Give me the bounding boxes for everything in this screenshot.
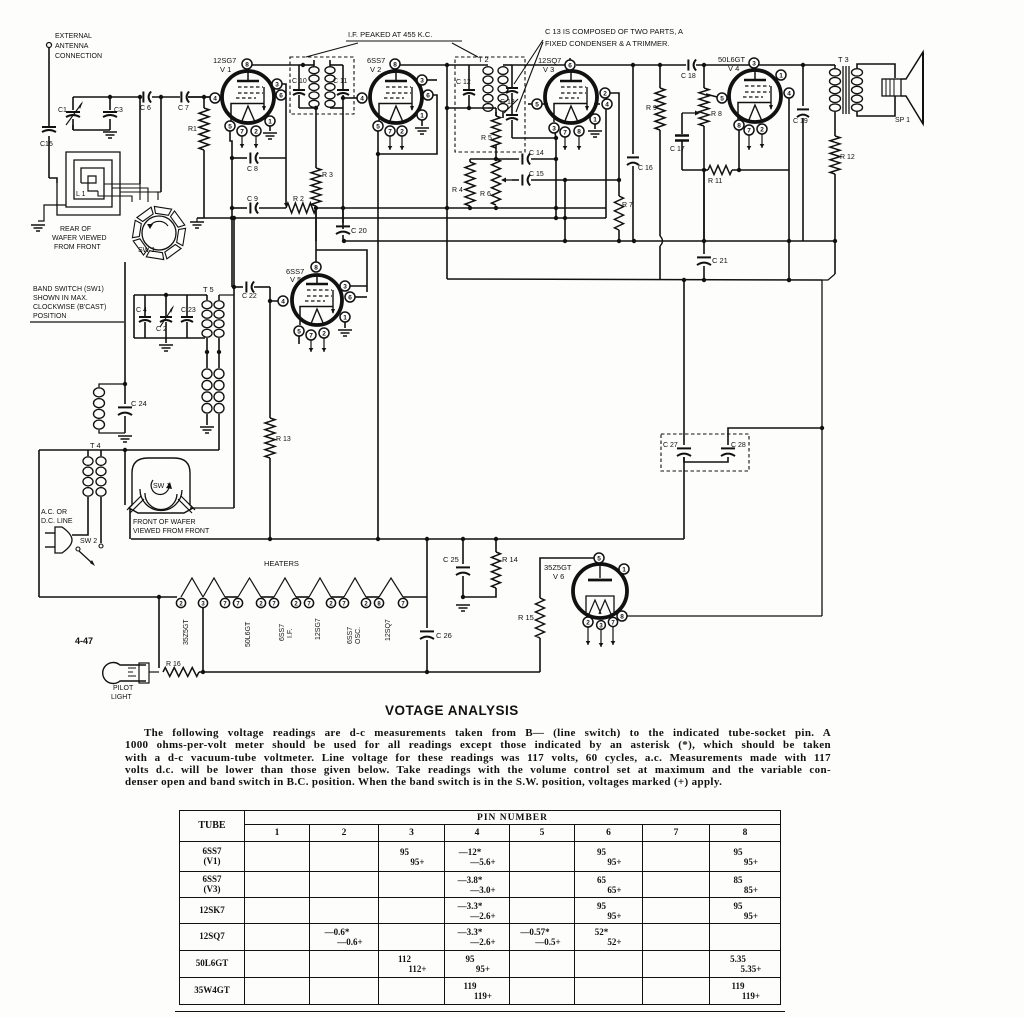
- wire pilot light column: [158, 597, 160, 668]
- svg-text:C 7: C 7: [178, 105, 189, 112]
- speaker SP1 voice coil: [882, 79, 901, 96]
- svg-text:6: 6: [348, 294, 352, 301]
- arrow V1 pin 7 lead: [241, 136, 243, 148]
- tube V1 pin 6: [276, 90, 286, 100]
- T1 secondary winding: [325, 67, 335, 74]
- wire C1-C3 bottom link: [72, 125, 74, 130]
- wire C6 left column down to L1 area: [139, 97, 141, 184]
- svg-text:D.C. LINE: D.C. LINE: [41, 518, 73, 525]
- wire plug left prong to heater line: [38, 450, 40, 597]
- svg-text:SP 1: SP 1: [895, 117, 910, 124]
- arrow V2 pin 2 lead: [401, 136, 403, 150]
- svg-text:7: 7: [240, 128, 244, 135]
- svg-text:HEATERS: HEATERS: [264, 559, 299, 568]
- wire T4 right winding down to SW2: [100, 497, 102, 543]
- table bottom rule: [175, 1011, 785, 1012]
- tube V4 pin 1: [776, 70, 786, 80]
- tube V5 pin 7: [306, 330, 316, 340]
- svg-text:4: 4: [787, 90, 791, 97]
- tube V6 pin 8: [617, 611, 627, 621]
- wire V1 pin5 column down: [230, 131, 232, 287]
- svg-text:FROM FRONT: FROM FRONT: [54, 244, 101, 251]
- svg-text:R 14: R 14: [502, 555, 518, 564]
- svg-text:CLOCKWISE (B'CAST): CLOCKWISE (B'CAST): [33, 304, 106, 311]
- svg-text:OSC.: OSC.: [355, 627, 362, 644]
- heater pin 7: [220, 598, 229, 607]
- heater pin 7 of 6SS7 IF: [269, 598, 278, 607]
- ground at V5 pin 1: [344, 322, 346, 328]
- wire R16 to C26 bus: [199, 671, 540, 673]
- heater pin 7 of 50L6GT: [233, 598, 242, 607]
- svg-text:T 4: T 4: [90, 441, 101, 450]
- wire V4 pin8 down: [738, 130, 740, 170]
- svg-text:C 16: C 16: [638, 165, 653, 172]
- tube V3 pin 4: [602, 99, 612, 109]
- svg-text:2: 2: [322, 330, 326, 337]
- capacitor C21: [703, 241, 705, 254]
- capacitor C22: [245, 282, 247, 293]
- capacitor C8: [232, 157, 247, 159]
- title VOTAGE ANALYSIS: [385, 703, 645, 718]
- svg-text:C 21: C 21: [712, 256, 728, 265]
- capacitor C26: [426, 539, 428, 628]
- tube V1 pin 3: [272, 79, 282, 89]
- wire V6 pin5 to R15: [540, 558, 594, 598]
- svg-text:3: 3: [752, 60, 756, 67]
- wire bus y280: [447, 279, 822, 280]
- wire V5 pin8 feedback loop: [315, 208, 317, 262]
- svg-text:C 18: C 18: [681, 73, 696, 80]
- svg-text:C 14: C 14: [529, 150, 544, 157]
- ground left of SW1: [31, 225, 45, 231]
- wire V1 pin8 to T1: [252, 64, 299, 66]
- arrow V6 pin 3 lead: [600, 630, 602, 647]
- T1 primary winding: [309, 67, 319, 74]
- arrow V3 pin 7 lead: [564, 137, 566, 150]
- svg-text:R 12: R 12: [840, 154, 855, 161]
- wire heater interconnects: [225, 596, 238, 598]
- pointer lines to T1 and T2: [306, 43, 358, 57]
- wire V2 pin3 stub: [427, 80, 437, 95]
- wire left of T2 down: [446, 65, 448, 108]
- wire top input bus: [73, 96, 140, 98]
- tube V2 pin 8: [390, 59, 400, 69]
- capacitor C15 (AVC tap): [505, 179, 512, 181]
- svg-text:1: 1: [420, 112, 424, 119]
- wire V1 pin3/6 to grid column: [282, 84, 286, 203]
- tube V3 pin 3: [549, 123, 559, 133]
- svg-text:4: 4: [213, 95, 217, 102]
- wire SW1 front to bus: [129, 509, 131, 539]
- wire V3 pin3 stub: [555, 133, 556, 138]
- resistor R9: [659, 65, 661, 88]
- svg-text:R 7: R 7: [622, 202, 633, 209]
- svg-text:V 3: V 3: [543, 65, 554, 74]
- ground under padder: [165, 338, 167, 343]
- svg-text:12SG7: 12SG7: [315, 618, 322, 640]
- wire C27/C28 bottom link: [684, 457, 728, 462]
- capacitor C3: [109, 97, 111, 110]
- svg-text:7: 7: [388, 128, 392, 135]
- svg-text:V 4: V 4: [728, 64, 739, 73]
- svg-text:7: 7: [747, 127, 751, 134]
- svg-text:BAND SWITCH (SW1): BAND SWITCH (SW1): [33, 286, 104, 293]
- svg-text:6SS7: 6SS7: [347, 627, 354, 644]
- tube V4 pin 8: [734, 120, 744, 130]
- svg-text:FRONT OF WAFER: FRONT OF WAFER: [133, 519, 196, 526]
- arrow V3 pin 8 lead: [578, 136, 580, 150]
- tube V4 pin 7: [744, 125, 754, 135]
- wire C22 column up (from C9 line): [233, 218, 235, 287]
- band switch SW1 (rear view): [142, 216, 176, 250]
- resistor R4: [469, 159, 471, 162]
- wire V3 pin5 stub: [528, 103, 532, 105]
- ground at V1 pin 1: [269, 126, 271, 131]
- wire C14 row: [494, 157, 498, 161]
- heater pin 2 of 50L6GT: [256, 598, 265, 607]
- svg-text:V 2: V 2: [370, 65, 381, 74]
- svg-text:5: 5: [597, 555, 601, 562]
- tube V6 35Z5GT envelope: [573, 564, 627, 618]
- svg-text:SHOWN IN MAX.: SHOWN IN MAX.: [33, 295, 88, 302]
- svg-text:CONNECTION: CONNECTION: [55, 53, 102, 60]
- tube V4 pin 2: [757, 124, 767, 134]
- svg-text:2: 2: [254, 128, 258, 135]
- loop antenna L1 (square spiral): [57, 152, 120, 215]
- capacitor C2 (variable): [160, 317, 172, 322]
- svg-text:12SG7: 12SG7: [213, 56, 236, 65]
- T2 primary winding: [483, 67, 493, 75]
- resistor R1: [203, 97, 205, 108]
- svg-text:3: 3: [552, 125, 556, 132]
- wire T5 top right to C22 column: [218, 294, 220, 296]
- tube V5 pin 4: [278, 296, 288, 306]
- svg-text:C 9: C 9: [247, 196, 258, 203]
- antenna terminal: [47, 43, 52, 48]
- resistor R8 (volume control): [703, 65, 705, 88]
- arrow V4 pin 7 lead: [748, 135, 750, 150]
- svg-text:PILOT: PILOT: [113, 685, 134, 692]
- wire V5 grid from C22: [254, 286, 270, 288]
- wire T1 bottom links: [299, 107, 316, 109]
- wire C28 top jog: [728, 428, 822, 445]
- svg-text:C 17: C 17: [670, 146, 685, 153]
- resistor R13: [265, 418, 275, 458]
- svg-text:1: 1: [593, 116, 597, 123]
- svg-text:ANTENNA: ANTENNA: [55, 43, 89, 50]
- svg-text:12SQ7: 12SQ7: [385, 619, 392, 641]
- arrow V2 pin 7 lead: [389, 136, 391, 150]
- heater pin 7 of 12SQ7: [398, 598, 407, 607]
- wire T3 secondary top to speaker: [857, 64, 895, 78]
- band switch SW1 (front view): [129, 458, 193, 513]
- wire antenna lead-in: [48, 47, 50, 127]
- svg-text:WAFER VIEWED: WAFER VIEWED: [52, 235, 107, 242]
- resistor R12: [830, 136, 840, 174]
- tube V4 50L6GT envelope: [729, 70, 781, 122]
- arrow into R8 wiper: [682, 112, 695, 114]
- wire V1 pin4 to C7: [188, 96, 210, 98]
- svg-text:T 2: T 2: [478, 55, 489, 64]
- arrow V5 pin 2 lead: [323, 338, 325, 352]
- svg-text:T 3: T 3: [838, 55, 849, 64]
- tube V2 pin 2: [397, 126, 407, 136]
- svg-text:C3: C3: [114, 107, 123, 114]
- capacitor C20: [342, 208, 344, 223]
- svg-text:2: 2: [603, 90, 607, 97]
- tube V1 pin 4: [210, 93, 220, 103]
- svg-text:R 16: R 16: [166, 661, 181, 668]
- heater pin 7 of 6SS7 OSC: [339, 598, 348, 607]
- ground under C25: [456, 605, 470, 611]
- wire V3 pin2 right to R7 column: [610, 93, 619, 196]
- svg-text:3: 3: [343, 283, 347, 290]
- svg-text:C 23: C 23: [181, 307, 196, 314]
- pilot light: [103, 663, 146, 684]
- capacitor C28: [721, 447, 735, 449]
- svg-text:8: 8: [620, 613, 624, 620]
- wire SW1 right side down: [233, 287, 235, 508]
- capacitor C9: [232, 207, 247, 209]
- wire L1 to ground bus: [38, 205, 66, 221]
- svg-text:R1: R1: [188, 126, 197, 133]
- wire heater feed left: [39, 596, 177, 598]
- capacitor C16: [632, 65, 634, 154]
- svg-text:EXTERNAL: EXTERNAL: [55, 33, 92, 40]
- wire C27 column: [683, 280, 685, 445]
- tube V2 pin 4: [357, 93, 367, 103]
- capacitor C4: [139, 317, 151, 322]
- svg-text:1: 1: [779, 72, 783, 79]
- svg-text:6: 6: [568, 62, 572, 69]
- capacitor C15 (antenna): [42, 127, 56, 132]
- svg-text:5: 5: [376, 123, 380, 130]
- resistor R16: [163, 668, 199, 677]
- voltage table: [179, 810, 781, 1005]
- svg-text:R 8: R 8: [711, 111, 722, 118]
- tube V3 pin 2: [600, 88, 610, 98]
- svg-text:R 4: R 4: [452, 187, 463, 194]
- svg-text:6SS7: 6SS7: [279, 624, 286, 641]
- wire T1 top links: [299, 64, 314, 66]
- svg-text:8: 8: [577, 128, 581, 135]
- capacitor C1 (variable): [72, 97, 74, 110]
- svg-text:5: 5: [535, 101, 539, 108]
- oscillator coil: [94, 388, 105, 397]
- wire R12 jog to x822: [821, 280, 823, 616]
- tube V3 pin 5: [532, 99, 542, 109]
- wire T3 primary top: [830, 65, 835, 68]
- svg-text:6: 6: [279, 92, 283, 99]
- svg-text:6SS7: 6SS7: [367, 56, 385, 65]
- wire top bus T2 to V3: [512, 64, 565, 66]
- tube V1 pin 5: [225, 121, 235, 131]
- capacitor C24: [124, 384, 126, 404]
- svg-text:SW 1: SW 1: [153, 483, 170, 490]
- svg-text:I.F. PEAKED AT 455 K.C.: I.F. PEAKED AT 455 K.C.: [348, 30, 432, 39]
- svg-text:35Z5GT: 35Z5GT: [183, 619, 190, 645]
- svg-text:4-47: 4-47: [75, 636, 93, 646]
- svg-text:C 28: C 28: [731, 442, 746, 449]
- tube V2 pin 7: [385, 126, 395, 136]
- svg-text:C 22: C 22: [242, 293, 257, 300]
- svg-text:C 27: C 27: [663, 442, 678, 449]
- electrolytic block dashed box C27 C28: [661, 434, 749, 471]
- wire V3 pin4 column: [605, 109, 607, 218]
- T2 secondary winding: [498, 67, 508, 75]
- wire T3 secondary bottom to speaker: [857, 96, 895, 116]
- IF transformer T1 dashed box: [290, 57, 354, 114]
- svg-text:R 5: R 5: [481, 135, 492, 142]
- wire V2 pin4 to T1: [343, 97, 357, 99]
- svg-text:C 24: C 24: [131, 399, 147, 408]
- capacitor C7: [180, 92, 182, 103]
- wire V3 pin6 bus segment: [576, 64, 686, 66]
- svg-text:50L6GT: 50L6GT: [718, 55, 746, 64]
- wire T5 lower right down: [218, 414, 220, 450]
- svg-text:R 15: R 15: [518, 613, 534, 622]
- tube V5 pin 8: [311, 262, 321, 272]
- wire padder top bus: [134, 294, 205, 296]
- svg-text:2: 2: [586, 619, 590, 626]
- svg-text:4: 4: [360, 95, 364, 102]
- ground at V2 pin 1: [421, 120, 423, 126]
- wire AVC column x565: [564, 180, 566, 241]
- ground at V3 pin 1: [594, 124, 596, 129]
- tube V2 6SS7 envelope: [370, 71, 422, 123]
- svg-text:5: 5: [720, 95, 724, 102]
- wire mid bus y218: [197, 217, 606, 219]
- svg-text:C 11: C 11: [333, 78, 347, 85]
- tube V3 pin 7: [560, 127, 570, 137]
- tube V6 pin 2: [583, 617, 593, 627]
- wire C13 to V3 pin3 row: [512, 137, 556, 139]
- svg-text:R 2: R 2: [293, 196, 304, 203]
- wire padder bottom bus: [134, 337, 205, 339]
- wire R5 bottom to R6: [495, 145, 497, 159]
- speaker SP1 cone: [901, 52, 923, 124]
- wire V5 pin3/6 stubs: [350, 285, 367, 287]
- svg-text:C 26: C 26: [436, 631, 452, 640]
- resistor R15: [536, 598, 545, 638]
- ground under C3: [103, 132, 117, 138]
- capacitor C19: [802, 65, 804, 106]
- svg-text:C 6: C 6: [140, 105, 151, 112]
- wire long vertical x125: [124, 262, 126, 384]
- wire V6 pin8 to right riser: [627, 615, 822, 617]
- wire heater pin3 column down: [202, 608, 204, 672]
- svg-text:R 9: R 9: [646, 105, 657, 112]
- svg-text:C 13 IS COMPOSED OF TWO PARTS,: C 13 IS COMPOSED OF TWO PARTS, A: [545, 27, 683, 36]
- wire V4 pin5 stub: [706, 94, 717, 97]
- wire T2/C12 bottom bus: [447, 107, 469, 109]
- svg-text:2: 2: [760, 126, 764, 133]
- svg-text:SW 2: SW 2: [80, 538, 97, 545]
- heater pin 3 of 35Z5GT: [198, 598, 207, 607]
- heater pin 2 of 6SS7 OSC: [361, 598, 370, 607]
- wire V2 pin5 loop: [378, 95, 437, 154]
- tube V1 pin 1: [265, 116, 275, 126]
- tube V5 pin 3: [340, 281, 350, 291]
- tube V2 pin 1: [417, 110, 427, 120]
- svg-text:1: 1: [343, 314, 347, 321]
- svg-text:C15: C15: [40, 141, 53, 148]
- svg-text:POSITION: POSITION: [33, 313, 66, 320]
- arrow V6 pin 7 lead: [612, 627, 614, 645]
- capacitor C6: [142, 92, 144, 103]
- heater pin 2 of 35Z5GT: [176, 598, 185, 607]
- wire C6 right column down: [160, 97, 162, 192]
- tube V4 pin 3: [749, 58, 759, 68]
- svg-text:C 25: C 25: [443, 555, 459, 564]
- svg-text:V 5: V 5: [290, 275, 301, 284]
- tube V1 pin 2: [251, 126, 261, 136]
- svg-text:C 8: C 8: [247, 166, 258, 173]
- capacitor C17: [681, 113, 683, 134]
- wire junction row to SW1: [156, 191, 161, 193]
- resistor R3: [315, 108, 317, 168]
- wires L1 to band switch: [104, 184, 140, 200]
- tube V6 pin 3: [597, 621, 606, 630]
- voltage analysis paragraph: [125, 727, 831, 788]
- tube V6 pin 5: [594, 553, 604, 563]
- wire V4 pin3 riser: [753, 58, 755, 65]
- svg-text:V 1: V 1: [220, 65, 231, 74]
- svg-text:5: 5: [228, 123, 232, 130]
- capacitor C18: [687, 60, 689, 71]
- resistor R7: [615, 196, 624, 230]
- svg-text:4: 4: [605, 101, 609, 108]
- resistor R5: [495, 112, 497, 116]
- ground under T5 lower: [206, 414, 208, 425]
- arrow V4 pin 2 lead: [761, 134, 763, 148]
- heater pin 2 of 12SG7: [326, 598, 335, 607]
- wire V5 pin5 stub: [298, 336, 300, 344]
- wire T2 top links: [469, 64, 488, 66]
- resistor R11: [702, 168, 706, 172]
- tube V6 pin 7: [608, 617, 617, 626]
- capacitor C14: [521, 154, 523, 165]
- wire SW1 front left column: [124, 450, 126, 505]
- wire V2 pin8 top: [400, 64, 469, 66]
- tube V4 pin 4: [784, 88, 794, 98]
- svg-text:3: 3: [275, 81, 279, 88]
- svg-text:12SQ7: 12SQ7: [538, 56, 561, 65]
- wire V3 pin6 riser: [569, 58, 571, 65]
- wire R13 top to V5 grid: [269, 301, 271, 418]
- svg-text:8: 8: [245, 61, 249, 68]
- wire R8 bottom to bus: [703, 170, 705, 241]
- tube V2 pin 6: [423, 90, 433, 100]
- heater pin 7 of 12SG7: [304, 598, 313, 607]
- tube V6 pin 1: [619, 564, 629, 574]
- svg-text:SW 1: SW 1: [138, 247, 155, 254]
- svg-text:A.C. OR: A.C. OR: [41, 509, 67, 516]
- heater pin 2 of 6SS7 IF: [291, 598, 300, 607]
- tube V5 pin 6: [345, 292, 355, 302]
- wire T1 secondary bottom down to C20: [342, 108, 344, 229]
- wire T4 left winding down to plug: [72, 497, 88, 535]
- wire T5 windings bottom: [206, 338, 208, 352]
- svg-text:T 5: T 5: [203, 285, 214, 294]
- svg-text:7: 7: [309, 332, 313, 339]
- svg-text:C 15: C 15: [529, 171, 544, 178]
- T4 windings: [83, 457, 93, 466]
- tube V3 pin 6: [565, 60, 575, 70]
- wire V4 pin4 down: [788, 98, 790, 280]
- wire B- bus y539: [131, 538, 684, 540]
- svg-text:V 6: V 6: [553, 572, 564, 581]
